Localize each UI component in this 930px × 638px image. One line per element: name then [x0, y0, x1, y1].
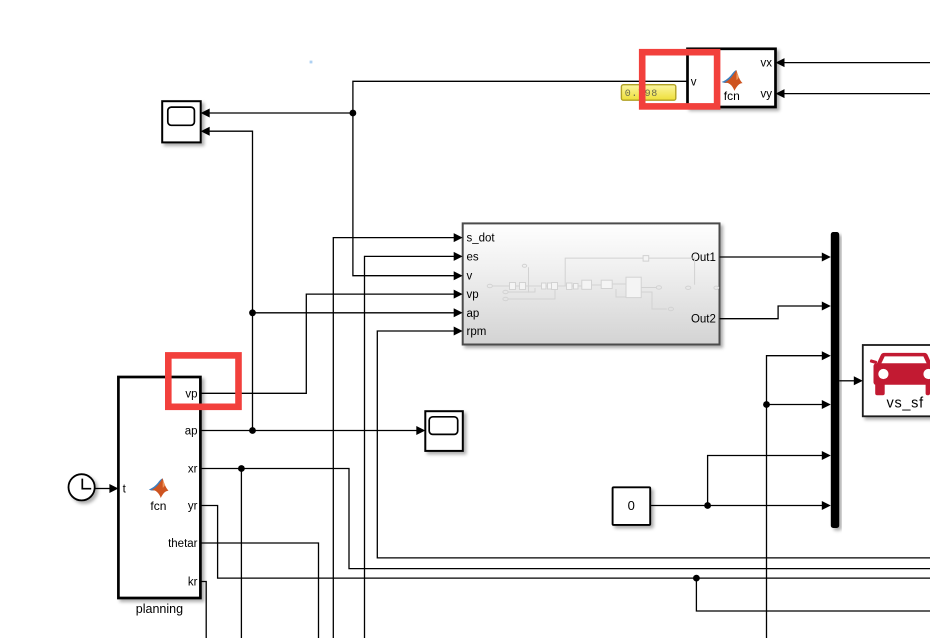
svg-text:v: v — [691, 77, 697, 89]
arrowheads — [109, 58, 862, 510]
svg-text:fcn: fcn — [724, 89, 740, 103]
svg-text:es: es — [467, 251, 479, 263]
wire rpm from right edge — [377, 331, 930, 558]
red highlight rect on planning vp port — [168, 355, 238, 406]
wire xr branch down — [240, 469, 242, 638]
matlab logo of planning — [149, 478, 169, 498]
arrow into scope2 — [416, 426, 425, 435]
subsystem content preview — [487, 256, 718, 311]
mux bar — [831, 232, 839, 528]
scope Scope1 — [162, 101, 201, 142]
MATLAB function block U_v (vx,vy -> v) — [688, 49, 776, 107]
svg-text:vx: vx — [761, 57, 773, 69]
wire v: fcn out to subsystem v input — [353, 81, 688, 275]
svg-text:vp: vp — [467, 289, 479, 301]
svg-text:0: 0 — [628, 498, 635, 513]
svg-text:planning: planning — [136, 602, 183, 616]
value tooltip 0.798 — [621, 85, 675, 101]
svg-text:fcn: fcn — [150, 499, 166, 513]
svg-text:vy: vy — [761, 89, 773, 101]
wire vy from right edge — [783, 93, 930, 95]
arrows into mux — [822, 253, 831, 262]
svg-text:ap: ap — [467, 308, 480, 320]
wire es from bottom edge — [365, 256, 456, 638]
red highlight rect on fcn v port — [642, 52, 717, 106]
svg-text:kr: kr — [188, 577, 198, 589]
constant block 0 — [613, 487, 651, 525]
wire vp: planning vp to subsystem — [200, 294, 455, 393]
svg-text:thetar: thetar — [168, 538, 198, 550]
subsystem (s_dot,es,v,vp,ap,rpm -> Out1,Out2) — [463, 223, 720, 344]
arrow into fcn vy — [776, 89, 785, 98]
matlab logo of U_v — [722, 70, 743, 91]
wire ap vertical branch — [208, 131, 253, 430]
wire ap: planning ap to Scope2 — [200, 430, 417, 432]
wire v branch to Scope1 input1 — [208, 112, 353, 114]
wire s_dot from bottom edge — [333, 238, 455, 638]
subsystem vs_sf with car icon — [863, 345, 930, 416]
wire clock to planning t — [95, 488, 111, 490]
MATLAB function block planning (t -> vp,ap,xr,yr,thetar,kr) — [118, 377, 200, 598]
wire yr branch down right — [696, 578, 930, 611]
arrows into subsystem inputs — [454, 233, 463, 242]
wire Out1 to mux — [720, 256, 824, 258]
wire thetar down — [200, 543, 318, 638]
wire xr to right edge — [200, 469, 930, 569]
wire kr down — [200, 582, 206, 638]
wire yr to right edge — [200, 506, 930, 579]
svg-text:s_dot: s_dot — [467, 233, 496, 245]
wire mux input4 branch — [767, 404, 824, 406]
wire vx from right edge — [783, 62, 930, 64]
svg-text:v: v — [467, 271, 473, 283]
svg-text:vp: vp — [185, 388, 197, 400]
arrow into planning t — [109, 484, 118, 493]
arrow into vs_sf — [854, 376, 863, 385]
blue dot artifact — [310, 61, 313, 64]
wire mux input3/4 from bottom edge — [767, 356, 824, 638]
wire mux out to vs_sf — [839, 380, 855, 382]
svg-text:ap: ap — [185, 426, 198, 438]
arrow into fcn vx — [776, 58, 785, 67]
wire Out2 to mux — [720, 306, 824, 319]
svg-text:yr: yr — [188, 501, 198, 513]
wire branch to mux input5 — [708, 456, 823, 506]
scope Scope2 — [425, 411, 463, 451]
svg-text:rpm: rpm — [467, 326, 487, 338]
svg-text:Out2: Out2 — [691, 314, 716, 326]
wire ap branch to subsystem — [253, 312, 456, 314]
wire const 0 to mux input6 — [650, 505, 823, 507]
clock block — [69, 474, 95, 500]
arrow into scope1 in2 — [201, 127, 210, 136]
svg-text:vs_sf: vs_sf — [887, 395, 925, 411]
svg-text:xr: xr — [188, 464, 198, 476]
arrow into scope1 in1 — [201, 109, 210, 118]
